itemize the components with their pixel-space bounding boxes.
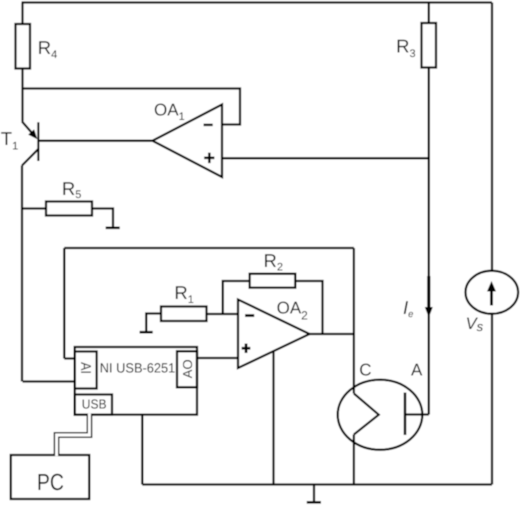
wire R5 right lead [92,209,113,228]
svg-text:AO: AO [180,359,195,378]
wire R4 top lead [21,3,23,25]
op-amp OA1 [153,105,223,178]
cathode chevron C [354,394,379,435]
svg-text:PC: PC [37,469,64,495]
resistor R3 [422,23,437,68]
wire OA1 noninverting input to R3 branch [222,157,429,159]
wire loop into AI [64,357,75,359]
wire R3 down to anode [428,68,430,415]
ground bottom bar [307,501,321,504]
wire T1 base to OA1 output [38,140,152,142]
Vs arrow [490,289,493,306]
svg-text:A: A [411,360,423,379]
ground bottom stub [313,485,315,502]
AI port box [75,352,97,389]
USB port box [75,395,112,415]
resistor R5 [46,202,92,216]
DAQ box NI USB-6251 [75,347,197,415]
wire R1 to OA2 inverting input [207,313,239,315]
wire R2 right lead [295,281,322,334]
AO port box [177,351,197,387]
ground R1 [140,331,153,334]
phototube envelope [338,380,423,450]
wire Vs top [491,3,493,272]
wire R3 top lead [428,3,430,24]
transistor T1 base bar [37,122,39,161]
resistor R4 [16,24,31,69]
T1 emitter arrowhead [28,129,37,139]
wire top rail [22,1,493,3]
anode bar A [404,393,407,436]
resistor R1 [161,307,207,322]
wire AO to OA2 noninverting input [197,357,239,359]
wire anode lead [405,413,429,415]
wire Vs bottom [491,314,493,485]
OA1 plus symbol [204,157,214,160]
transistor T1 collector diagonal [22,149,38,166]
wire loop top [64,247,354,249]
wire R4 to T1 emitter [21,69,23,122]
wire R1 ground lead [146,314,161,332]
svg-text:AI: AI [77,362,93,374]
OA2 plus symbol [242,347,251,350]
wire loop left down [63,248,65,359]
PC box [11,455,89,499]
transistor T1 emitter diagonal [22,122,34,135]
svg-text:USB: USB [82,396,107,411]
wire T1 collector down to AI [21,166,23,382]
current arrow Ie [427,276,430,309]
wire OA2 ground stub [272,351,274,485]
svg-text:C: C [359,360,371,379]
svg-text:NI USB-6251: NI USB-6251 [100,360,176,375]
wire bottom ground rail [142,483,492,485]
wire R5 left lead [23,207,47,209]
OA1 minus symbol [204,124,213,126]
resistor R2 [250,274,296,288]
OA2 minus symbol [245,314,254,317]
wire OA2 output net vertical [353,248,355,394]
op-amp OA2 [238,300,310,369]
wire NI box to ground rail [141,415,143,485]
wire into AI port [23,380,76,382]
wire cathode to ground rail [353,435,355,485]
ground R5 [106,227,120,230]
wire R2 left lead [223,281,250,314]
wire collector feedback to OA1 inverting input [23,89,241,125]
wire OA2 output [310,333,354,335]
USB cable [57,414,90,457]
current source Vs circle [466,271,519,314]
